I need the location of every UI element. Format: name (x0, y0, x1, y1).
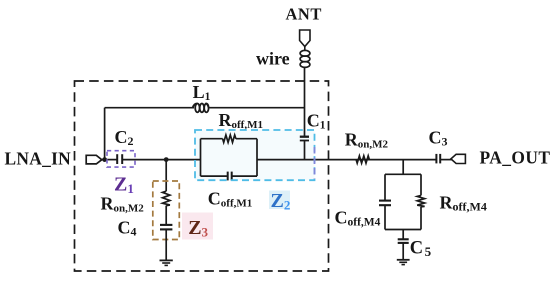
wire between resistor and C4 (165, 206, 167, 225)
svg-text:ANT: ANT (286, 5, 322, 24)
wire from C5 to ground (402, 243, 404, 260)
M4 loop top edge (385, 173, 421, 175)
svg-text:C2: C2 (115, 127, 134, 148)
svg-text:LNA_IN: LNA_IN (5, 148, 72, 168)
inductor wire (antenna coil) (300, 50, 310, 67)
svg-text:Roff,M4: Roff,M4 (440, 193, 487, 214)
capacitor C2 (117, 154, 122, 164)
impedance box Z1 (107, 151, 135, 167)
ground (Z3 branch) (160, 260, 173, 265)
label R_on,M2 (left) (101, 194, 145, 215)
chip boundary dashed box (75, 81, 329, 271)
junction node at LNA input (102, 157, 107, 162)
label Z1 (114, 174, 134, 197)
junction node at Z3 branch (164, 157, 169, 162)
svg-text:Roff,M1: Roff,M1 (219, 110, 263, 131)
svg-text:C3: C3 (429, 128, 448, 149)
impedance box Z2 (195, 130, 315, 180)
capacitor C_off,M4 (379, 201, 391, 206)
impedance region Z2 background tint (195, 130, 315, 180)
wire from C4 to ground (165, 229, 167, 260)
svg-text:Z1: Z1 (114, 174, 134, 197)
label L1 (193, 82, 211, 103)
label C5 (410, 239, 432, 259)
label C4 (118, 218, 137, 239)
label Z3 (182, 213, 213, 240)
label ANT (286, 5, 322, 24)
port LNA_IN (86, 155, 102, 164)
wire down to Z3 resistor (165, 160, 167, 192)
resistor R_on,M2 (series) (356, 156, 369, 163)
wire top-left loop (105, 108, 305, 160)
M4 loop left edge segments (384, 174, 386, 229)
label C3 (429, 128, 448, 149)
RC loop bottom wires (201, 175, 258, 177)
port PA_OUT (451, 154, 466, 163)
RC loop top wires (201, 138, 258, 140)
wire to C5 (402, 230, 404, 240)
label LNA_IN (5, 148, 72, 168)
label C2 (115, 127, 134, 148)
svg-text:PA_OUT: PA_OUT (480, 147, 550, 167)
RC loop right edge (256, 139, 258, 176)
resistor R_off,M4 (417, 195, 424, 206)
capacitor C4 (160, 225, 172, 230)
resistor R_on,M2 (shunt, in Z3) (163, 191, 170, 205)
inductor L1 (193, 104, 209, 113)
port ANT (300, 30, 310, 50)
svg-text:Coff,M4: Coff,M4 (335, 208, 381, 229)
svg-text:Coff,M1: Coff,M1 (208, 189, 252, 210)
label C_off,M1 (208, 189, 252, 210)
wire down from node to M4 loop (402, 160, 404, 175)
label C1 (307, 110, 326, 131)
M4 loop bottom edge (385, 229, 421, 231)
label Z2 (269, 190, 290, 213)
label R_on,M2 (series) (345, 130, 389, 151)
impedance box Z3 (153, 181, 180, 240)
ground (M4 branch) (397, 260, 410, 265)
capacitor C1 (300, 137, 309, 160)
label wire (256, 49, 290, 69)
svg-text:Ron,M2: Ron,M2 (101, 194, 145, 215)
label R_off,M1 (219, 110, 263, 131)
svg-text:wire: wire (256, 49, 290, 69)
capacitor C_off,M1 (228, 172, 232, 181)
svg-text:Ron,M2: Ron,M2 (345, 130, 389, 151)
label PA_OUT (480, 147, 550, 167)
label C_off,M4 (335, 208, 381, 229)
svg-text:C5: C5 (410, 239, 432, 259)
resistor R_off,M1 (223, 135, 236, 142)
capacitor C3 (436, 154, 440, 164)
main horizontal wire segments (102, 159, 452, 161)
svg-text:L1: L1 (193, 82, 211, 103)
svg-text:C1: C1 (307, 110, 326, 131)
svg-text:C4: C4 (118, 218, 137, 239)
capacitor C5 (398, 239, 409, 243)
RC loop of switch M1: left edge (200, 139, 202, 176)
label R_off,M4 (440, 193, 487, 214)
wire from coil down to main node (304, 67, 306, 136)
M4 loop right edge segments (420, 174, 422, 229)
